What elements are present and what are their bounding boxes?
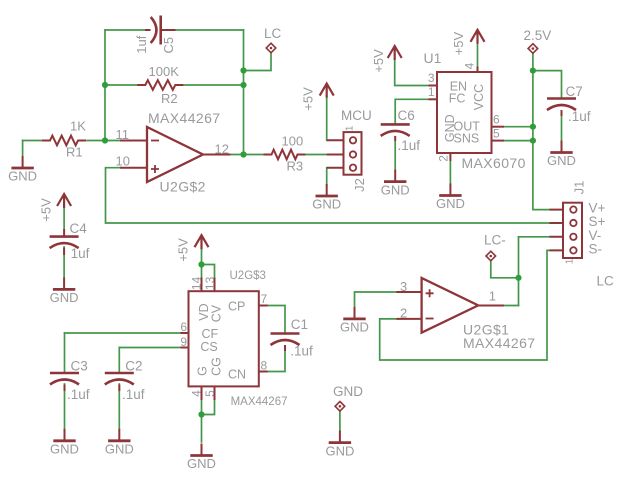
- svg-text:R2: R2: [161, 91, 178, 106]
- svg-text:10: 10: [116, 154, 130, 169]
- capacitor C2 (.1uf): [118, 385, 120, 392]
- svg-text:9: 9: [180, 335, 187, 349]
- svg-text:GND: GND: [105, 442, 134, 457]
- svg-text:CF: CF: [202, 327, 219, 341]
- resistor R3: [264, 150, 306, 160]
- wire net N$4: U2G$2 pin 10 feedback to J1 S+: [106, 168, 550, 223]
- svg-text:100K: 100K: [149, 64, 180, 79]
- svg-text:+5V: +5V: [301, 87, 316, 111]
- ground for C6: [394, 170, 396, 182]
- connector J2 (MCU): [327, 140, 344, 167]
- +5V supply at C4: [57, 194, 71, 208]
- svg-text:2: 2: [400, 306, 407, 321]
- wire U1 GND pin 2 to GND: [449, 161, 451, 184]
- op-amp U2G$2 (MAX44267): [120, 141, 231, 168]
- op-amp U2G$1 (MAX44267): [396, 292, 504, 319]
- svg-text:4: 4: [189, 390, 203, 397]
- svg-text:11: 11: [116, 127, 130, 142]
- svg-text:CV: CV: [209, 304, 223, 322]
- wire C6 to GND: [394, 141, 396, 170]
- svg-text:LC-: LC-: [484, 233, 506, 248]
- svg-text:S+: S+: [589, 214, 606, 229]
- IC U1 MAX6070 body: [437, 72, 492, 153]
- wire C4 to GND: [63, 247, 65, 278]
- svg-text:FC: FC: [449, 92, 466, 106]
- svg-text:C6: C6: [398, 108, 415, 123]
- svg-text:C7: C7: [566, 84, 583, 99]
- svg-text:U1: U1: [424, 50, 442, 66]
- wire GND pin to ground symbol: [339, 411, 341, 431]
- wire U2G$3 CP pin 7 to C1: [268, 306, 285, 334]
- svg-text:.1uf: .1uf: [398, 138, 421, 153]
- junction 2.5V at C7 tap: [530, 68, 536, 74]
- svg-text:GND: GND: [340, 320, 369, 335]
- svg-text:GND: GND: [312, 197, 341, 212]
- wire C2 to GND: [118, 384, 120, 429]
- svg-text:1: 1: [428, 85, 435, 99]
- capacitor C5 (1uf): [145, 29, 176, 31]
- U1 pin 4 VCC: [477, 67, 479, 73]
- wire net N$5: U2G$1 out / LC- / J1 V-: [519, 236, 550, 238]
- capacitor C7 (.1uf): [561, 110, 563, 116]
- IC U2G$3 MAX44267 body: [189, 291, 259, 386]
- svg-text:13: 13: [203, 276, 217, 290]
- ground for U2G$1 pin 3: [354, 307, 356, 319]
- svg-text:1K: 1K: [70, 119, 86, 134]
- svg-text:5: 5: [493, 127, 500, 141]
- U2G$3 pin 9 CS: [181, 347, 189, 349]
- svg-text:14: 14: [189, 276, 203, 290]
- svg-text:R1: R1: [66, 145, 83, 160]
- resistor R1: [42, 136, 86, 146]
- ground for U1 pin 2: [449, 184, 451, 196]
- U1 pin 5 SNS: [492, 140, 505, 142]
- wire +5V to U1 EN pin 3: [395, 60, 429, 86]
- junction on N$1 at R2 left: [102, 82, 108, 88]
- connector J1: [550, 210, 564, 251]
- wire C1 to U2G$3 CN pin 8: [268, 351, 285, 372]
- ground for C4: [63, 277, 65, 289]
- svg-text:G: G: [196, 366, 210, 376]
- junction 2.5V at pin 6: [530, 124, 536, 130]
- svg-text:C3: C3: [71, 358, 88, 373]
- wire net N$2: C5 right / R2 right / LC / op-amp output / R3 left: [176, 29, 244, 31]
- wire +5V to U1 VCC pin 4: [477, 44, 479, 67]
- ground for R1: [22, 156, 24, 168]
- svg-text:12: 12: [215, 142, 229, 157]
- svg-text:.1uf: .1uf: [122, 387, 145, 402]
- junction on N$2 at R2 right: [240, 82, 246, 88]
- svg-text:.1uf: .1uf: [568, 109, 591, 124]
- svg-text:GND: GND: [50, 442, 79, 457]
- junction N$5 at LC- tap: [515, 275, 521, 281]
- ground for C2: [118, 429, 120, 441]
- wire net 2.5V: U1 OUT/SNS, C7, J1 V+: [504, 126, 533, 128]
- wire +5V to C4: [63, 208, 65, 230]
- wire J2 pin 3 to GND: [326, 168, 328, 185]
- svg-text:2.5V: 2.5V: [524, 28, 552, 43]
- svg-text:GND: GND: [547, 153, 576, 168]
- svg-text:CS: CS: [200, 340, 217, 354]
- svg-text:6: 6: [180, 320, 187, 334]
- svg-text:GND: GND: [50, 290, 79, 305]
- svg-text:U2G$2: U2G$2: [160, 179, 206, 195]
- wire net N$8: U2G$3 CS pin 9 to C2: [119, 347, 180, 349]
- svg-text:LC: LC: [264, 26, 282, 41]
- svg-text:.1uf: .1uf: [290, 343, 313, 358]
- svg-text:R3: R3: [287, 159, 304, 174]
- junction on N$2 at output: [240, 151, 246, 157]
- svg-text:5: 5: [203, 390, 217, 397]
- svg-text:C4: C4: [70, 221, 88, 236]
- svg-text:100: 100: [282, 134, 304, 149]
- svg-text:C5: C5: [161, 37, 176, 54]
- wire GND to R1 left: [23, 140, 42, 142]
- svg-text:1: 1: [564, 258, 575, 264]
- svg-text:MAX44267: MAX44267: [148, 110, 220, 126]
- U2G$3 pin 14 VD: [201, 278, 203, 292]
- svg-text:1: 1: [489, 289, 496, 304]
- svg-text:C1: C1: [291, 317, 308, 332]
- capacitor C6 (.1uf): [394, 136, 396, 141]
- U2G$3 pin 6 CF: [181, 332, 189, 334]
- svg-text:.1uf: .1uf: [67, 387, 90, 402]
- svg-text:+5V: +5V: [451, 32, 466, 56]
- +5V supply at U1 VCC: [471, 30, 485, 44]
- wire +5V to U2G$3 pins 14,13: [201, 249, 203, 278]
- U2G$3 pin 5 CG: [214, 386, 216, 400]
- svg-text:+5V: +5V: [38, 198, 53, 222]
- wire C7 to GND: [561, 116, 563, 141]
- junction +5V at pin 14: [198, 261, 204, 267]
- svg-text:S-: S-: [589, 241, 603, 256]
- U2G$3 pin 7 CP: [259, 305, 268, 307]
- svg-text:GND: GND: [436, 196, 465, 211]
- svg-text:MAX6070: MAX6070: [462, 155, 526, 171]
- wire U1 FC pin 1 to C6: [395, 99, 428, 124]
- ground for C7: [561, 141, 563, 153]
- svg-text:4: 4: [463, 62, 477, 69]
- U1 pin 1 FC: [429, 98, 438, 100]
- svg-text:1: 1: [344, 125, 355, 131]
- wire U2G$1 pin 3 to GND: [355, 292, 397, 307]
- pin connector LC: [266, 43, 276, 53]
- svg-text:3: 3: [400, 279, 407, 294]
- svg-text:SNS: SNS: [454, 131, 480, 145]
- junction GND at pin 4: [198, 411, 204, 417]
- svg-text:GND: GND: [8, 169, 37, 184]
- svg-text:1uf: 1uf: [71, 246, 90, 261]
- capacitor C1 (.1uf): [284, 345, 286, 351]
- svg-text:VCC: VCC: [472, 84, 486, 110]
- +5V supply at U2G$3: [195, 235, 209, 249]
- junction on N$1 at pin 11: [102, 137, 108, 143]
- svg-text:MAX44267: MAX44267: [231, 396, 288, 408]
- svg-text:J1: J1: [572, 181, 587, 195]
- svg-text:GND: GND: [325, 443, 354, 458]
- ground for GND pin: [339, 431, 341, 443]
- capacitor C3 (.1uf): [64, 385, 66, 392]
- svg-text:GND: GND: [381, 182, 410, 197]
- +5V supply at U1 EN: [388, 46, 402, 60]
- ground for J2: [326, 184, 328, 196]
- svg-text:GND: GND: [333, 384, 363, 399]
- U2G$3 pin 8 CN: [259, 371, 268, 373]
- svg-text:CG: CG: [209, 357, 223, 376]
- +5V supply at J2 (MCU): [320, 84, 334, 98]
- svg-text:+5V: +5V: [371, 49, 386, 73]
- U1 pin 3 EN: [429, 85, 438, 87]
- ground for U2G$3: [201, 444, 203, 456]
- svg-text:CN: CN: [228, 368, 246, 382]
- svg-text:MCU: MCU: [341, 108, 372, 123]
- U2G$3 pin 13 CV: [214, 278, 216, 292]
- U2G$3 pin 4 G: [201, 386, 203, 400]
- svg-text:1uf: 1uf: [134, 35, 149, 53]
- svg-text:J2: J2: [352, 178, 367, 192]
- svg-text:2: 2: [437, 155, 451, 162]
- svg-text:MAX44267: MAX44267: [463, 335, 535, 351]
- svg-text:+5V: +5V: [175, 238, 190, 262]
- capacitor C4 (1uf): [63, 229, 65, 255]
- ground for C3: [64, 429, 66, 441]
- pin connector 2.5V: [528, 44, 538, 54]
- U1 pin 6 OUT: [492, 126, 505, 128]
- wire net N$3: R3 right to J2 pin 2: [306, 154, 327, 156]
- svg-text:GND: GND: [187, 456, 216, 471]
- U1 pin 2 GND: [449, 153, 451, 161]
- svg-text:3: 3: [428, 71, 435, 85]
- wire C3 to GND: [64, 384, 66, 429]
- junction 2.5V at pin 5: [530, 138, 536, 144]
- svg-text:6: 6: [493, 113, 500, 127]
- resistor R2: [137, 80, 183, 90]
- svg-text:7: 7: [261, 292, 268, 306]
- wire net N$7: U2G$3 CF pin 6 to C3: [65, 332, 181, 334]
- wire net N$6: U2G$1 pin 2 loop to J1 S-: [380, 250, 550, 360]
- svg-text:C2: C2: [125, 358, 142, 373]
- wire net N$1: C5 left / R2 left / R1 right / U2G$2 pin 11: [105, 29, 145, 31]
- svg-text:U2G$3: U2G$3: [230, 270, 266, 282]
- svg-text:8: 8: [261, 359, 268, 373]
- junction on N$2 at LC tap: [240, 67, 246, 73]
- svg-text:LC: LC: [597, 274, 615, 289]
- wire U2G$3 pins 4,5 to GND: [201, 400, 203, 415]
- wire +5V to J2 pin 1: [326, 96, 328, 140]
- pin connector LC-: [486, 251, 496, 261]
- svg-text:CP: CP: [228, 299, 245, 313]
